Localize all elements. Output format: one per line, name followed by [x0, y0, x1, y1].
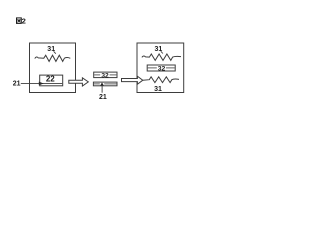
- sheet bar 21 (middle bottom): [93, 82, 117, 86]
- heater resistor 31 (right box top): [142, 54, 181, 60]
- midline of bar 32 (right): [148, 67, 157, 69]
- sheet bar 32 (middle top): [94, 72, 117, 78]
- component box 22: [40, 75, 63, 86]
- midline of bar 32: [94, 74, 100, 76]
- svg-text:21: 21: [13, 80, 21, 87]
- leader tick of label 31 (left): [54, 51, 56, 53]
- leader line from label 21 (left): [21, 82, 39, 84]
- heater resistor 31 (left box): [35, 55, 71, 61]
- internal plate line in box 22: [40, 82, 62, 84]
- up arrowhead into bottom bar: [100, 82, 104, 85]
- left unit box: [30, 43, 76, 93]
- block arrow (left box to sheet 32): [69, 78, 89, 86]
- svg-text:22: 22: [46, 75, 55, 84]
- figure title 図2: [17, 16, 26, 25]
- svg-text:32: 32: [158, 65, 166, 72]
- leader shaft from label 21 (middle): [101, 86, 103, 93]
- leader tick of label 31 (right top): [161, 51, 163, 53]
- block arrow (into right box): [122, 76, 143, 84]
- right unit box: [137, 43, 184, 93]
- component bar 32 (right box): [147, 65, 175, 71]
- svg-text:32: 32: [101, 72, 109, 79]
- heater resistor 31 (right box bottom): [143, 77, 179, 83]
- svg-text:2: 2: [22, 16, 26, 25]
- svg-text:21: 21: [99, 94, 107, 101]
- midline of bottom bar: [94, 83, 100, 85]
- svg-text:31: 31: [154, 86, 162, 93]
- arrowhead into box 22: [39, 82, 44, 86]
